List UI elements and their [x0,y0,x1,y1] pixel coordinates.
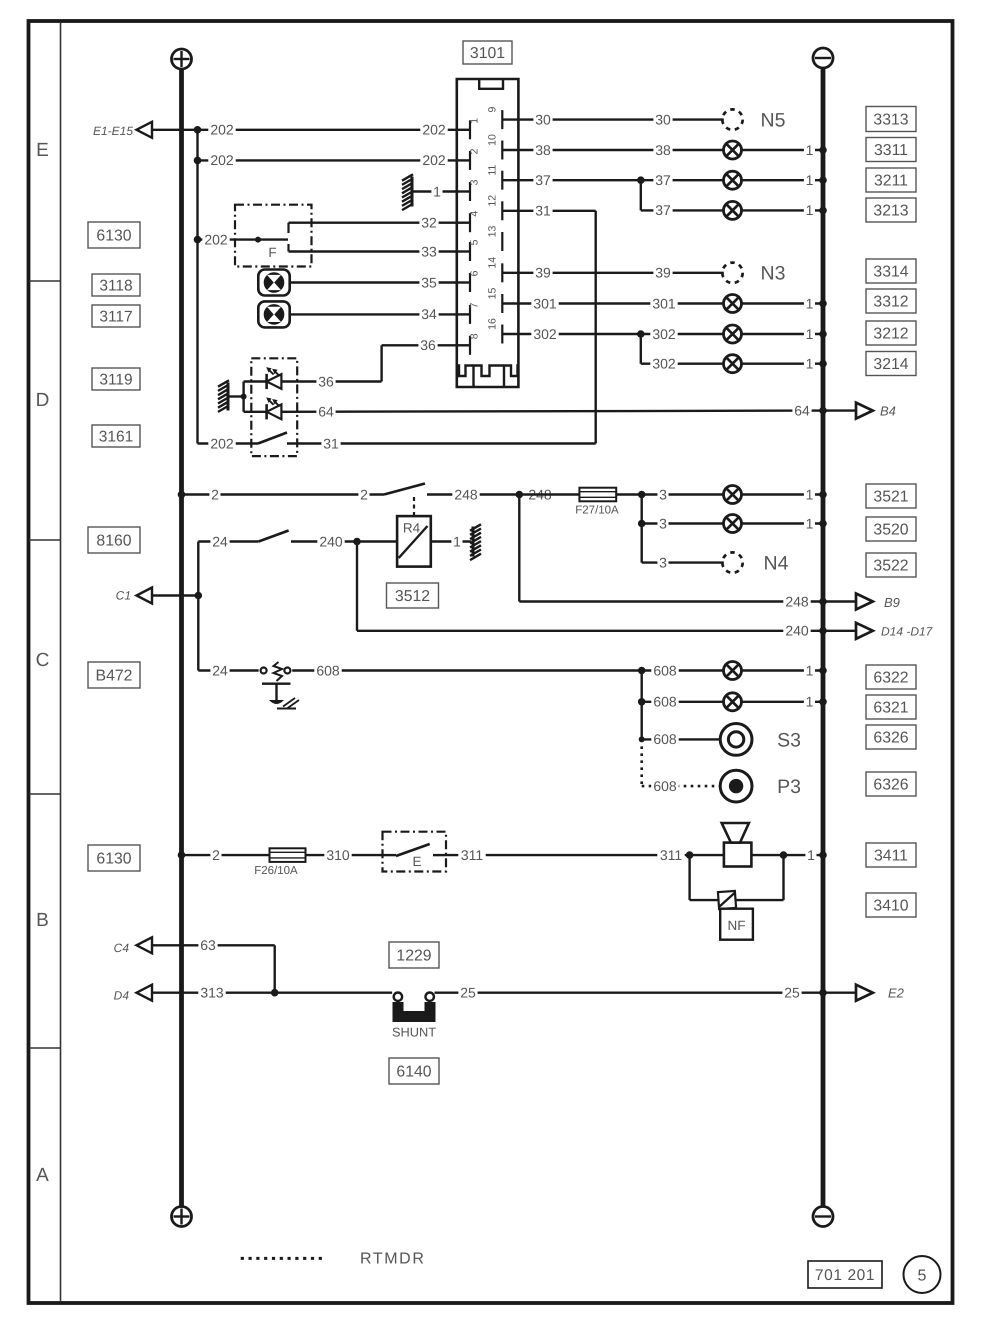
svg-text:64: 64 [794,402,810,418]
label box 3214 [866,352,916,376]
component F dashed box [235,205,312,267]
svg-text:301: 301 [652,295,676,311]
sheet number circle 5 [904,1256,941,1293]
minus terminal top [813,48,833,68]
left distribution vertical (24) [197,542,199,671]
indicator lamp symbol (3117) [258,301,289,327]
svg-text:B472: B472 [96,667,133,684]
svg-text:311: 311 [660,847,683,863]
svg-text:3521: 3521 [873,488,908,505]
svg-text:3: 3 [469,179,481,185]
connector U1 top keying notch [479,79,503,89]
NF bypass path [688,855,690,900]
indicator lamp symbol (3118) [258,270,289,296]
lamp (3520) [724,515,742,533]
wire 34 to pin 7 [290,313,457,315]
label box 3313 [866,107,916,132]
svg-text:6326: 6326 [873,776,908,793]
legend dotted sample [241,1257,326,1260]
lamp (3213) [724,201,742,219]
svg-text:1: 1 [806,142,814,158]
connector pin 12 [502,210,518,212]
svg-text:N5: N5 [761,109,786,131]
svg-text:3: 3 [659,486,667,502]
wire 2 / 248 row with switch (8160) [178,491,186,499]
label box 3520 [866,517,916,541]
svg-text:202: 202 [422,122,446,138]
svg-text:B4: B4 [880,403,896,418]
svg-text:2: 2 [211,486,219,502]
label box 6326 (second) [866,772,916,796]
svg-text:15: 15 [487,288,499,300]
svg-text:B: B [36,910,49,931]
svg-text:3520: 3520 [873,521,908,538]
label box 3118 [92,274,140,296]
switch blade (instrument) [259,531,289,542]
svg-text:608: 608 [653,731,677,747]
svg-text:5: 5 [918,1268,927,1285]
switch box E dashed [383,832,447,872]
connector pin 13 [501,232,503,251]
svg-text:608: 608 [653,662,677,678]
svg-text:6321: 6321 [873,699,908,716]
arrow B4 [856,403,873,419]
switch S(3161) wire 202 [198,442,259,444]
svg-text:11: 11 [487,165,499,176]
svg-text:1: 1 [806,515,814,531]
LED D2 [265,404,268,419]
svg-text:37: 37 [655,202,671,218]
608 vertical [641,671,643,740]
wire 3 row a [642,493,725,495]
relay R4 [397,516,431,567]
label box 3119 [92,368,140,390]
wire 64 to B4 [281,411,823,412]
svg-text:2: 2 [212,847,220,863]
svg-text:C4: C4 [114,941,130,955]
svg-text:1: 1 [806,356,814,372]
svg-text:6322: 6322 [873,669,908,686]
svg-text:F26/10A: F26/10A [254,865,298,877]
svg-text:3214: 3214 [873,356,908,373]
switch blade 8160 [384,484,425,495]
dotted 608 to P3 [640,739,643,786]
svg-text:1: 1 [806,295,814,311]
svg-text:3: 3 [659,554,667,570]
LED unit dashed box [251,358,297,456]
label box 8160 [88,527,140,553]
svg-text:37: 37 [655,172,671,188]
svg-text:3117: 3117 [99,308,132,325]
svg-text:30: 30 [535,111,551,127]
svg-text:35: 35 [421,274,437,290]
NF element (slashed box) [718,891,736,909]
svg-text:24: 24 [212,533,228,549]
svg-text:302: 302 [652,326,676,342]
connector pin 10 [502,149,518,151]
connector pin 6 [457,281,470,283]
wire 240 to D14-D17 [356,542,358,631]
label box 6326 [866,725,916,749]
wire 37 branch down [640,180,642,210]
svg-text:1: 1 [806,662,814,678]
switch blade E [383,854,397,856]
switch blade 3161 [258,433,287,444]
lamp (3311) [724,141,742,159]
shunt [394,993,402,1001]
svg-text:F27/10A: F27/10A [575,505,619,517]
svg-text:N4: N4 [764,552,789,574]
label box 6321 [866,695,916,719]
label box 3213 [866,198,916,222]
svg-text:36: 36 [420,337,436,353]
svg-text:31: 31 [535,203,551,219]
plus bus (left vertical) [179,69,184,1207]
svg-text:1: 1 [469,118,481,124]
svg-text:240: 240 [785,623,809,639]
svg-text:1: 1 [807,847,815,863]
svg-text:39: 39 [535,265,551,281]
wire 1 to pin 3 [413,190,457,192]
connector pin 1 [457,129,470,131]
svg-text:1: 1 [806,172,814,188]
connector U1 bottom comb [457,366,519,388]
lamp (3212) [724,325,742,343]
wire 608 to S3 [639,736,645,742]
svg-text:301: 301 [533,295,557,311]
arrow B9 [856,594,873,610]
label box 3211 [866,168,916,192]
lamp (6321) [724,693,742,711]
connector pin 14 [502,272,518,274]
svg-text:1: 1 [806,694,814,710]
svg-text:248: 248 [454,486,478,502]
svg-text:3212: 3212 [873,325,908,342]
gauge S3 [720,724,752,756]
svg-text:3311: 3311 [874,142,908,159]
svg-text:3313: 3313 [873,111,908,128]
wire 301 pin15 to lamp [518,302,724,304]
buzzer N3 [722,263,742,283]
svg-text:302: 302 [652,356,676,372]
svg-text:16: 16 [487,318,499,330]
svg-text:10: 10 [487,134,499,146]
connector pin 11 [502,179,518,181]
connector pin 16 [502,333,518,335]
wire 302 pin16, splits [518,333,724,335]
svg-text:B9: B9 [884,595,900,610]
svg-text:64: 64 [318,403,334,419]
label box 3312 [866,289,916,313]
connector pin 5 [457,250,470,252]
label box 6140 [389,1058,439,1084]
svg-text:3161: 3161 [99,428,133,445]
wire 24 / 608 row with pressure switch (B472) [198,669,258,671]
svg-text:30: 30 [655,111,671,127]
ground hatch for LED unit [218,380,229,412]
wire 24 / 240 row to relay R4 [198,540,258,542]
lamp group vertical [638,491,646,499]
svg-text:3512: 3512 [395,588,430,605]
lamp (3521) [724,486,742,504]
svg-text:38: 38 [655,142,671,158]
svg-text:39: 39 [655,265,671,281]
svg-text:P3: P3 [777,776,801,798]
svg-text:3118: 3118 [99,277,132,294]
svg-text:E: E [412,854,421,869]
svg-text:240: 240 [319,533,343,549]
connector pin 15 [502,302,518,304]
svg-text:202: 202 [210,152,234,168]
LED common vertical [242,382,244,412]
svg-text:N3: N3 [761,263,786,285]
ground link wire [229,395,244,397]
svg-text:63: 63 [200,937,216,953]
label box 3521 [866,484,916,508]
svg-text:25: 25 [460,985,476,1001]
svg-text:202: 202 [210,122,234,138]
svg-text:NF: NF [728,918,746,933]
svg-text:302: 302 [533,326,557,342]
svg-text:202: 202 [210,435,234,451]
wire 311 [446,854,690,856]
zone column line [60,22,62,1302]
svg-text:2: 2 [360,486,368,502]
svg-text:311: 311 [461,847,484,863]
svg-text:1: 1 [433,183,441,199]
svg-text:6: 6 [469,270,481,276]
svg-text:608: 608 [316,662,340,678]
svg-text:1229: 1229 [396,947,431,964]
horn 3411 [724,843,752,867]
svg-text:248: 248 [785,593,809,609]
wire 2 / 310 / 311 row [178,851,186,859]
svg-text:SHUNT: SHUNT [392,1025,436,1040]
wire 30 pin9 to N5 [518,118,723,120]
svg-text:1: 1 [806,486,814,502]
label box 3314 [866,259,916,283]
fuse F27/10A [579,488,616,502]
svg-text:D14 -D17: D14 -D17 [881,624,934,638]
connector pin 7 [457,313,470,315]
wire 202 to pin 1 with E1-E15 arrow [137,129,457,131]
svg-text:3411: 3411 [874,847,908,864]
label box 3512 [387,583,439,608]
connector pin 3 [457,190,470,192]
svg-text:202: 202 [422,152,446,168]
svg-text:D: D [36,390,50,411]
wire 202 into F [198,238,289,240]
label box 3411 [866,843,916,867]
wire 39 pin14 to N3 [518,272,723,274]
plus terminal bottom [172,1207,192,1227]
svg-text:6326: 6326 [873,729,908,746]
svg-text:6140: 6140 [396,1063,431,1080]
lamp (3211) [724,171,742,189]
svg-text:E2: E2 [888,986,905,1001]
fuse F26/10A [270,848,306,862]
wire 37 pin11, splits [518,179,724,181]
svg-text:6130: 6130 [96,850,131,867]
svg-text:R4: R4 [403,521,421,536]
wire 1 to ground from R4 [431,540,471,542]
wire 608 [292,669,724,671]
wire 202 to pin 2 [198,159,457,161]
svg-text:E1-E15: E1-E15 [93,124,133,138]
svg-text:RTMDR: RTMDR [360,1251,425,1268]
wire 25 to E2 [435,992,857,994]
svg-text:608: 608 [653,778,677,794]
svg-text:608: 608 [653,694,677,710]
buzzer N5 [722,109,742,129]
svg-text:3101: 3101 [470,45,505,62]
svg-text:202: 202 [204,231,228,247]
svg-text:A: A [36,1165,49,1186]
svg-text:5: 5 [469,239,481,245]
wire 36 from LED D1 [281,380,381,382]
wire 35 to pin 6 [290,281,457,283]
label box 6130 (B zone) [88,845,140,871]
svg-text:3: 3 [659,515,667,531]
minus terminal bottom [813,1207,833,1227]
svg-text:14: 14 [487,257,499,269]
zone separators [29,280,61,282]
LED D1 [265,374,268,389]
wire 302 branch down [640,334,642,364]
connector pin 9 [502,118,518,120]
wire 33 to pin 5 [289,250,457,252]
wire 248 to B9 [518,495,520,602]
F terminal prongs [287,223,289,233]
connector U1 body [457,79,519,387]
sensor P3 [720,770,752,802]
buzzer N4 [722,552,742,572]
svg-text:313: 313 [200,985,224,1001]
svg-text:33: 33 [421,243,437,259]
svg-text:D4: D4 [114,988,130,1002]
svg-text:12: 12 [487,195,499,207]
plus terminal top [172,49,192,69]
svg-text:3211: 3211 [874,172,908,189]
arrow E2 [856,985,873,1001]
svg-text:13: 13 [487,226,499,238]
svg-text:7: 7 [469,302,481,308]
svg-text:8160: 8160 [96,532,131,549]
sheet ref box 701 201 [808,1261,882,1288]
svg-text:36: 36 [318,373,334,389]
wire 3 row c to N4 [642,561,724,563]
wire 31 from switch to pin 12 [287,442,596,444]
lamp (6322) [724,662,742,680]
ground hatch at pin 3 [402,174,413,210]
minus bus (right vertical) [821,68,826,1207]
svg-text:310: 310 [326,847,350,863]
svg-text:1: 1 [806,202,814,218]
connector pin 2 [457,159,470,161]
ground hatch at R4 [470,524,481,560]
lamp (3214) [724,355,742,373]
svg-text:3410: 3410 [873,897,908,914]
svg-text:3119: 3119 [99,371,132,388]
svg-text:1: 1 [453,533,461,549]
svg-text:3312: 3312 [873,293,908,310]
connector pin 8 [457,344,470,346]
lamp (3312) [724,295,742,313]
label box 3311 [866,138,916,162]
svg-text:C: C [36,650,50,671]
svg-text:37: 37 [535,172,551,188]
arrow C1 [137,594,199,596]
svg-text:3314: 3314 [873,263,908,280]
svg-text:2: 2 [469,148,481,154]
wire 1 to minus bus [742,149,824,151]
svg-text:701 201: 701 201 [815,1267,875,1284]
wire 608 row b [638,698,646,706]
label box 6130 [88,222,140,248]
svg-text:6130: 6130 [96,227,131,244]
node 202 distribution vertical wire [196,130,198,444]
wire 3 row b [638,520,646,528]
label box 3212 [866,321,916,345]
connector U1 label 3101 [463,41,512,64]
svg-text:C1: C1 [116,589,131,603]
svg-text:31: 31 [323,435,339,451]
wire 38 pin10 to lamp [518,149,724,151]
label box 6322 [866,665,916,689]
svg-text:38: 38 [535,142,551,158]
svg-text:F: F [268,245,276,260]
wire 32 to pin 4 [289,221,457,223]
svg-text:25: 25 [784,985,800,1001]
label box 3410 [866,893,916,917]
relay actuating dashed link [413,497,415,516]
svg-text:1: 1 [806,326,814,342]
svg-text:E: E [36,140,49,161]
label box 3117 [92,305,140,327]
svg-text:32: 32 [421,215,437,231]
arrow D14-D17 [856,623,873,639]
arrow D4 with wire 313 [137,992,393,994]
label box 3161 [92,425,140,447]
svg-text:S3: S3 [777,729,801,751]
svg-text:24: 24 [212,662,228,678]
svg-text:3213: 3213 [873,202,908,219]
svg-text:3522: 3522 [873,557,908,574]
svg-text:9: 9 [487,107,499,113]
label box 1229 [389,942,439,968]
svg-text:4: 4 [469,211,481,217]
svg-text:34: 34 [421,306,437,322]
label box 3522 [866,553,916,577]
svg-text:8: 8 [469,333,481,339]
pressure switch symbol [261,668,267,674]
arrow C4 with wire 63 [137,944,275,946]
label box B472 [88,662,140,688]
NF box [720,909,753,940]
connector pin 4 [457,221,470,223]
